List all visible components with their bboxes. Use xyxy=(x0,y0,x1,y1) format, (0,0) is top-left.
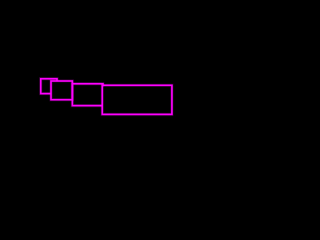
box 1 wide glow xyxy=(41,79,57,94)
box 3 (third box): right edge stub, top, left, partial bottom (cut by box 4) xyxy=(72,84,103,106)
box 4 (largest, right): full outline xyxy=(102,85,172,114)
inner glow layer xyxy=(41,79,172,115)
core lines xyxy=(41,79,172,115)
box 3 inner glow xyxy=(72,84,103,106)
box 2 wide glow xyxy=(51,81,72,100)
box 2 inner glow xyxy=(51,81,72,100)
wide faint glow layer xyxy=(41,79,172,115)
box 4 wide glow xyxy=(102,85,172,114)
box 1 (smallest, left): right edge stub, top, left, partial bottom (cut by box 2) xyxy=(41,79,57,94)
box 3 wide glow xyxy=(72,84,103,106)
box 4 inner glow xyxy=(102,85,172,114)
box 1 inner glow xyxy=(41,79,57,94)
box 2 (second box): full outline xyxy=(51,81,72,100)
